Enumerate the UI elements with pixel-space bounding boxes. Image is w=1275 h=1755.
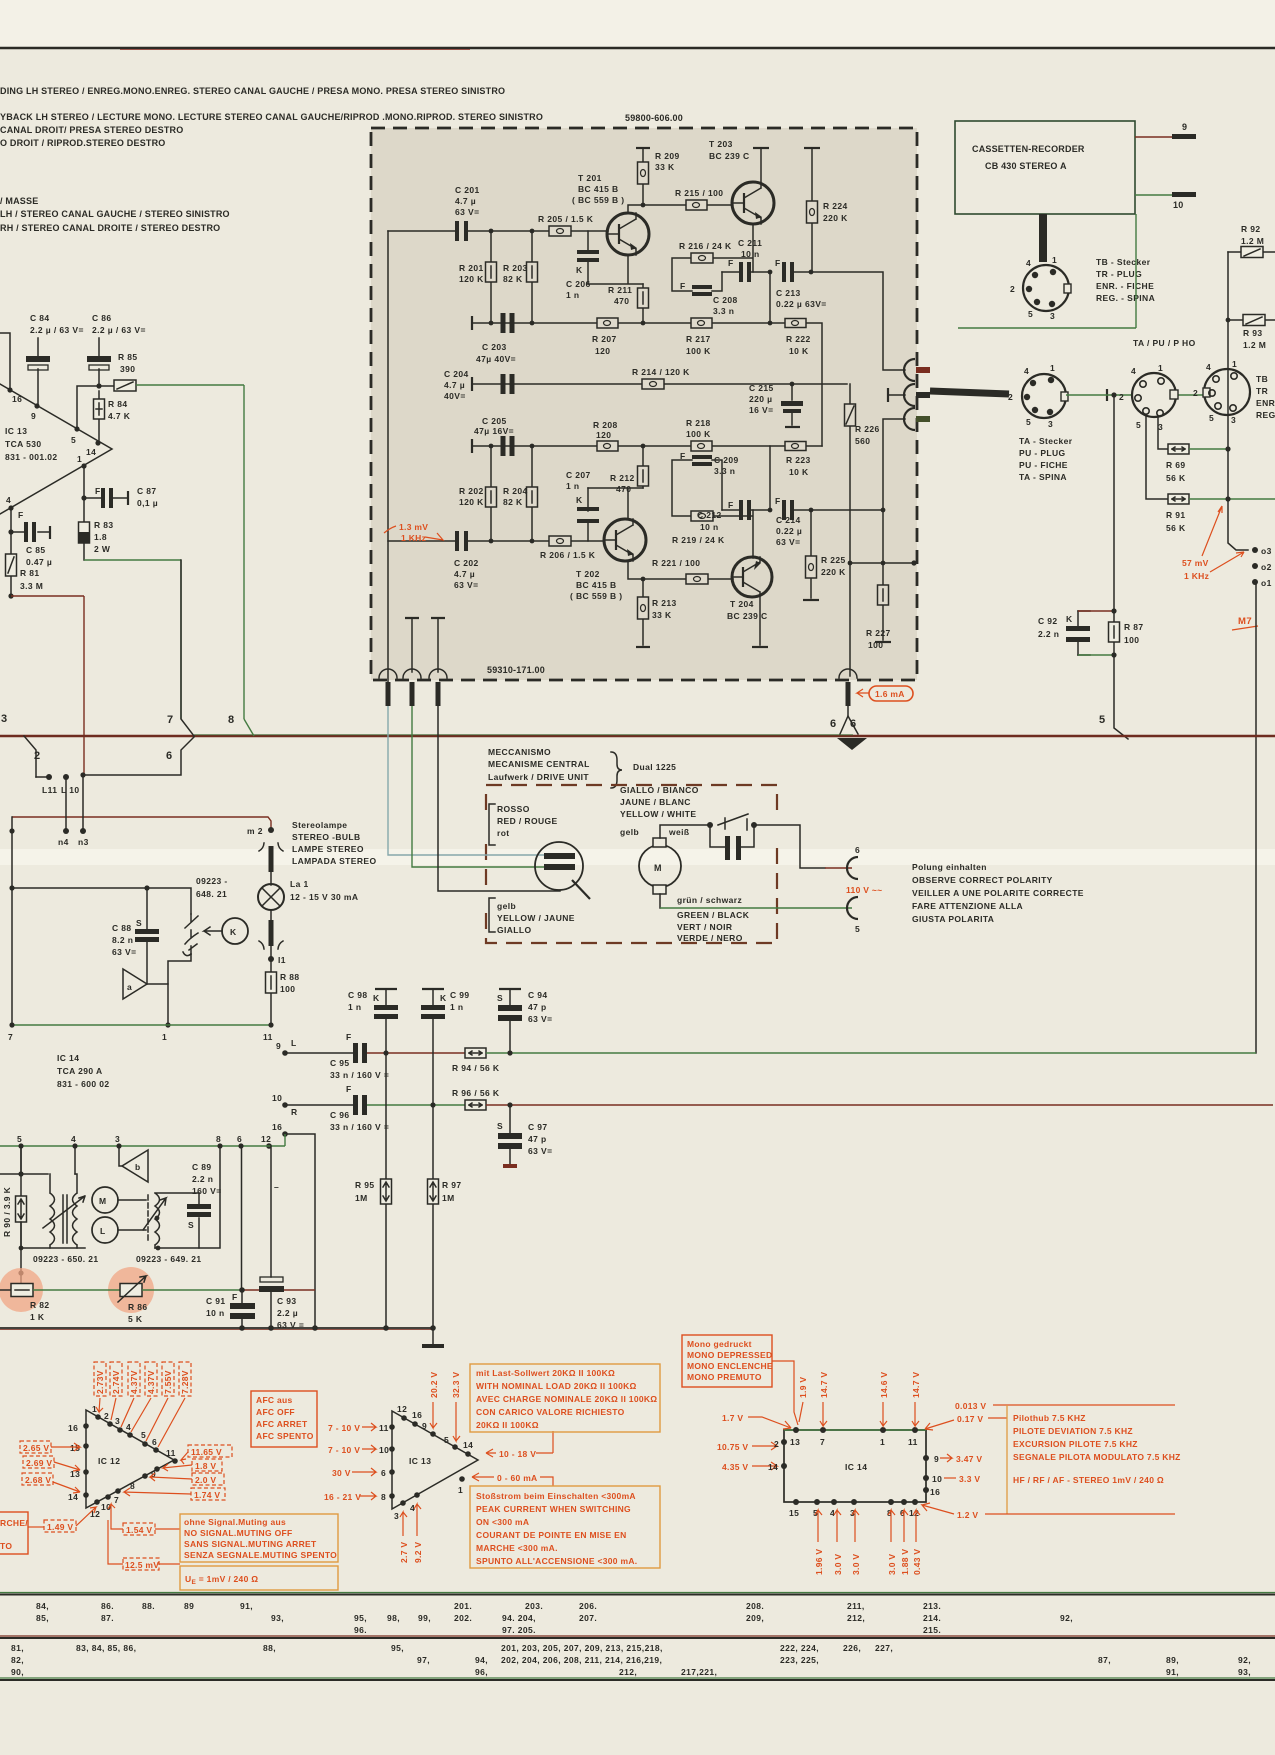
svg-text:99,: 99, xyxy=(418,1613,431,1623)
amp triangle a xyxy=(123,969,147,999)
svg-text:R 216 / 24 K: R 216 / 24 K xyxy=(679,241,732,251)
svg-text:TB: TB xyxy=(1256,374,1268,384)
svg-text:9: 9 xyxy=(934,1454,939,1464)
svg-text:14.6 V: 14.6 V xyxy=(879,1372,889,1398)
wire pin4 drop xyxy=(74,1146,76,1174)
jack 5 xyxy=(847,897,860,934)
svg-text:11: 11 xyxy=(263,1032,273,1042)
svg-text:7 - 10 V: 7 - 10 V xyxy=(328,1423,360,1433)
wire trafo top xyxy=(0,1146,48,1174)
resistor R87 xyxy=(1109,611,1144,655)
svg-text:7 - 10 V: 7 - 10 V xyxy=(328,1445,360,1455)
node R87 top xyxy=(1111,608,1116,613)
svg-text:33 K: 33 K xyxy=(652,610,672,620)
svg-text:11: 11 xyxy=(379,1423,389,1433)
svg-text:2.65 V: 2.65 V xyxy=(23,1443,49,1453)
node C87 xyxy=(81,495,86,500)
DIN plug TA/PU/PHO mid xyxy=(1119,363,1178,432)
UE box xyxy=(180,1566,338,1590)
svg-text:m 2: m 2 xyxy=(247,826,263,836)
svg-text:F: F xyxy=(346,1032,352,1042)
svg-text:12: 12 xyxy=(397,1404,407,1414)
svg-text:R 86: R 86 xyxy=(128,1302,148,1312)
node sh2 xyxy=(881,561,886,566)
svg-text:MONO PREMUTO: MONO PREMUTO xyxy=(687,1372,762,1382)
svg-text:1: 1 xyxy=(1232,359,1237,369)
svg-text:ROSSO: ROSSO xyxy=(497,804,530,814)
svg-text:LH / STEREO CANAL GAUCHE / ST: LH / STEREO CANAL GAUCHE / STEREO SINIST… xyxy=(0,209,230,219)
svg-text:1 n: 1 n xyxy=(566,481,579,491)
IC13 triangle xyxy=(392,1411,478,1509)
node C94 xyxy=(507,1050,512,1055)
bend 6 xyxy=(83,737,194,775)
svg-text:AFC aus: AFC aus xyxy=(256,1395,293,1405)
wire T201 emitter xyxy=(588,255,643,284)
svg-text:220 K: 220 K xyxy=(823,213,848,223)
svg-text:93,: 93, xyxy=(1238,1667,1251,1677)
svg-text:16: 16 xyxy=(412,1410,422,1420)
node output ch2 xyxy=(809,508,814,513)
resistor R69 xyxy=(1166,444,1189,483)
node C88 top xyxy=(144,885,149,890)
resistor R81 xyxy=(6,532,44,596)
svg-text:16: 16 xyxy=(68,1423,78,1433)
svg-text:C 91: C 91 xyxy=(206,1296,226,1306)
capacitor C94 S xyxy=(497,989,552,1053)
svg-text:C 87: C 87 xyxy=(137,486,157,496)
resistor R97 xyxy=(428,1105,462,1328)
capacitor C89 S xyxy=(187,1162,222,1248)
svg-text:C 201: C 201 xyxy=(455,185,480,195)
wire collector row xyxy=(628,205,732,213)
IC13 pins left xyxy=(324,1423,395,1502)
pin P1 xyxy=(379,669,397,706)
svg-text:WITH NOMINAL LOAD 20KΩ II 100: WITH NOMINAL LOAD 20KΩ II 100KΩ xyxy=(476,1381,637,1391)
svg-text:C 211: C 211 xyxy=(738,238,762,248)
svg-text:C 205: C 205 xyxy=(482,416,507,426)
svg-text:5: 5 xyxy=(444,1435,449,1445)
svg-text:–: – xyxy=(274,1182,279,1192)
voltage 0.013V xyxy=(955,1401,1175,1411)
svg-text:MARCHE <300 mA.: MARCHE <300 mA. xyxy=(476,1543,558,1553)
node R87 bot xyxy=(1111,652,1116,657)
AFC box xyxy=(251,1391,317,1447)
svg-text:1 KHz: 1 KHz xyxy=(1184,571,1209,581)
svg-text:C 204: C 204 xyxy=(444,369,469,379)
svg-text:1: 1 xyxy=(162,1032,167,1042)
svg-text:7: 7 xyxy=(167,714,174,726)
svg-text:3.0 V: 3.0 V xyxy=(833,1554,843,1575)
svg-text:5: 5 xyxy=(71,435,76,445)
resistor R92 xyxy=(1228,224,1275,258)
svg-text:R 92: R 92 xyxy=(1241,224,1261,234)
svg-text:1.2 M: 1.2 M xyxy=(1241,236,1264,246)
svg-text:0.013 V: 0.013 V xyxy=(955,1401,986,1411)
svg-text:Mono gedruckt: Mono gedruckt xyxy=(687,1339,752,1349)
svg-text:T 204: T 204 xyxy=(730,599,754,609)
voltage boxes left IC12 xyxy=(20,1441,80,1493)
svg-text:F: F xyxy=(18,510,24,520)
svg-text:4.35 V: 4.35 V xyxy=(722,1462,748,1472)
wire motor top xyxy=(660,825,710,838)
svg-text:2.74V: 2.74V xyxy=(111,1370,121,1394)
svg-text:1: 1 xyxy=(92,1404,97,1414)
brace xyxy=(611,752,622,788)
svg-text:Pilothub 7.5 KHZ: Pilothub 7.5 KHZ xyxy=(1013,1413,1086,1423)
label gelb bracket xyxy=(489,898,575,935)
svg-text:C 203: C 203 xyxy=(482,342,507,352)
DIN plug TA mid xyxy=(1008,363,1068,429)
amp triangle b xyxy=(119,1146,148,1182)
svg-text:R 225: R 225 xyxy=(821,555,846,565)
svg-text:T 203: T 203 xyxy=(709,139,733,149)
wire row 1290 red xyxy=(242,1289,315,1291)
svg-text:R 219 / 24 K: R 219 / 24 K xyxy=(672,535,725,545)
svg-text:8: 8 xyxy=(381,1492,386,1502)
svg-text:12 - 15 V 30 mA: 12 - 15 V 30 mA xyxy=(290,892,358,902)
svg-text:214.: 214. xyxy=(923,1613,941,1623)
mechanism dashed box xyxy=(486,785,777,943)
node I1 xyxy=(268,955,286,965)
wire TA pin5 to R91 xyxy=(1146,415,1168,499)
svg-text:831 - 600 02: 831 - 600 02 xyxy=(57,1079,110,1089)
IC12 pins left xyxy=(68,1423,89,1502)
svg-text:SEGNALE PILOTA MODULATO 7.: SEGNALE PILOTA MODULATO 7.5 KHZ xyxy=(1013,1452,1181,1462)
svg-text:OBSERVE CORRECT POLARITY: OBSERVE CORRECT POLARITY xyxy=(912,875,1053,885)
voltage 1.49V xyxy=(28,1507,96,1532)
svg-text:86.: 86. xyxy=(101,1601,114,1611)
svg-text:GIALLO / BIANCO: GIALLO / BIANCO xyxy=(620,785,699,795)
svg-text:4: 4 xyxy=(1026,258,1031,268)
svg-text:n3: n3 xyxy=(78,837,89,847)
svg-text:b: b xyxy=(135,1162,141,1172)
svg-text:Stereolampe: Stereolampe xyxy=(292,820,347,830)
svg-text:F: F xyxy=(728,500,734,510)
resistor R95 xyxy=(355,1053,392,1328)
node 3 xyxy=(115,1134,122,1149)
svg-text:213.: 213. xyxy=(923,1601,941,1611)
svg-text:208.: 208. xyxy=(746,1601,764,1611)
IC14 pins bottom xyxy=(789,1499,919,1518)
svg-text:R 97: R 97 xyxy=(442,1180,462,1190)
svg-text:TA / PU / P HO: TA / PU / P HO xyxy=(1133,338,1196,348)
lamp La1 xyxy=(258,879,358,910)
svg-text:BC 239 C: BC 239 C xyxy=(709,151,750,161)
svg-text:C 95: C 95 xyxy=(330,1058,350,1068)
resistor R208 xyxy=(593,420,618,451)
cable recorder to TB plug xyxy=(1039,214,1047,262)
voltage 0-60mA xyxy=(472,1473,553,1486)
svg-text:63 V=: 63 V= xyxy=(528,1014,552,1024)
svg-text:C 98: C 98 xyxy=(348,990,368,1000)
svg-text:3: 3 xyxy=(1050,311,1055,321)
svg-text:10 K: 10 K xyxy=(789,467,809,477)
svg-text:F: F xyxy=(680,281,686,291)
voltage 3.47V xyxy=(940,1454,982,1464)
svg-text:C 214: C 214 xyxy=(776,515,801,525)
svg-text:94. 204,: 94. 204, xyxy=(502,1613,536,1623)
svg-text:LAMPE STEREO: LAMPE STEREO xyxy=(292,844,364,854)
svg-text:C 92: C 92 xyxy=(1038,616,1058,626)
svg-text:3.3 V: 3.3 V xyxy=(959,1474,980,1484)
svg-text:FARE ATTENZIONE ALLA: FARE ATTENZIONE ALLA xyxy=(912,901,1023,911)
IC14 rectangle xyxy=(784,1430,926,1502)
svg-text:MECANISME CENTRAL: MECANISME CENTRAL xyxy=(488,759,590,769)
svg-text:227,: 227, xyxy=(875,1643,893,1653)
node sh3 xyxy=(911,560,916,565)
svg-text:SENZA SEGNALE.MUTING SPENTO: SENZA SEGNALE.MUTING SPENTO xyxy=(184,1550,337,1560)
svg-text:1 n: 1 n xyxy=(450,1002,463,1012)
svg-text:223, 225,: 223, 225, xyxy=(780,1655,819,1665)
jack J2 out xyxy=(888,384,930,406)
wire o1 down xyxy=(1255,585,1257,1053)
svg-text:09223 - 649. 21: 09223 - 649. 21 xyxy=(136,1254,202,1264)
node n3 xyxy=(78,828,89,847)
svg-text:2.2 n: 2.2 n xyxy=(1038,629,1059,639)
node bus C91 xyxy=(239,1325,245,1331)
node R69 xyxy=(1225,446,1230,451)
svg-text:C 88: C 88 xyxy=(112,923,132,933)
svg-text:0.22 µ 63V=: 0.22 µ 63V= xyxy=(776,299,827,309)
pin P4 current xyxy=(839,669,857,706)
resistor R226 xyxy=(845,384,880,676)
svg-text:R 222: R 222 xyxy=(786,334,811,344)
svg-text:6: 6 xyxy=(166,750,173,762)
voltage 12.5mV xyxy=(108,1520,180,1570)
svg-text:110 V ~~: 110 V ~~ xyxy=(846,885,882,895)
capacitor C208 F xyxy=(680,272,738,316)
svg-text:95,: 95, xyxy=(354,1613,367,1623)
svg-text:15: 15 xyxy=(789,1508,799,1518)
svg-text:F: F xyxy=(95,486,101,496)
table row 2b xyxy=(11,1655,1251,1665)
svg-text:GIUSTA POLARITA: GIUSTA POLARITA xyxy=(912,914,994,924)
svg-text:gelb: gelb xyxy=(497,901,516,911)
svg-text:C 89: C 89 xyxy=(192,1162,212,1172)
resistor R96 xyxy=(452,1088,500,1110)
wire row 1290 green xyxy=(33,1289,120,1291)
label TB-Stecker xyxy=(1096,257,1155,303)
svg-text:470: 470 xyxy=(616,484,631,494)
svg-text:98,: 98, xyxy=(387,1613,400,1623)
svg-text:SANS SIGNAL.MUTING ARRET: SANS SIGNAL.MUTING ARRET xyxy=(184,1539,317,1549)
svg-text:100 K: 100 K xyxy=(686,429,711,439)
row1 items xyxy=(101,1601,941,1611)
svg-text:6: 6 xyxy=(830,718,837,730)
node bus C93 xyxy=(268,1325,274,1331)
svg-text:09223 -: 09223 - xyxy=(196,876,228,886)
svg-text:10 n: 10 n xyxy=(741,249,760,259)
svg-text:R 215 / 100: R 215 / 100 xyxy=(675,188,723,198)
svg-text:30 V: 30 V xyxy=(332,1468,351,1478)
ground bar R227 xyxy=(875,641,891,643)
node t2b xyxy=(156,1246,161,1251)
svg-text:2: 2 xyxy=(774,1439,779,1449)
svg-text:211,: 211, xyxy=(847,1601,865,1611)
svg-text:226,: 226, xyxy=(843,1643,861,1653)
wire jack6 red tail xyxy=(825,867,852,869)
wire left col xyxy=(11,817,13,1025)
svg-text:16 - 21 V: 16 - 21 V xyxy=(324,1492,361,1502)
svg-text:9: 9 xyxy=(276,1041,281,1051)
pilothub text block xyxy=(1007,1405,1181,1514)
voltage 1.2V xyxy=(922,1503,1175,1520)
svg-text:C 206: C 206 xyxy=(566,279,591,289)
node tb xyxy=(19,1246,24,1251)
svg-text:VEILLER A UNE POLARITE CORRE: VEILLER A UNE POLARITE CORRECTE xyxy=(912,888,1084,898)
svg-text:59310-171.00: 59310-171.00 xyxy=(487,665,545,675)
svg-text:0.22 µ: 0.22 µ xyxy=(776,526,802,536)
node left a xyxy=(9,828,14,833)
label IC14 TCA290A xyxy=(57,1053,110,1089)
top border red tint xyxy=(120,49,470,51)
svg-text:81,: 81, xyxy=(11,1643,24,1653)
svg-text:16 V=: 16 V= xyxy=(749,405,773,415)
voltage 3.3V xyxy=(944,1474,980,1484)
svg-text:M: M xyxy=(99,1196,106,1206)
svg-text:MECCANISMO: MECCANISMO xyxy=(488,747,551,757)
svg-text:201.: 201. xyxy=(454,1601,472,1611)
svg-text:ON <300 mA: ON <300 mA xyxy=(476,1517,529,1527)
svg-text:IC 13: IC 13 xyxy=(5,426,27,436)
node R213 xyxy=(641,577,646,582)
svg-text:1.96 V: 1.96 V xyxy=(814,1549,824,1575)
svg-text:R 214 / 120 K: R 214 / 120 K xyxy=(632,367,690,377)
head connector circle xyxy=(535,842,590,899)
svg-text:F: F xyxy=(775,258,781,268)
IC14 pins right xyxy=(923,1454,942,1497)
svg-text:C 97: C 97 xyxy=(528,1122,548,1132)
svg-text:7.55V: 7.55V xyxy=(163,1370,173,1394)
svg-text:DING LH STEREO / ENREG.MONO.EN: DING LH STEREO / ENREG.MONO.ENREG. STERE… xyxy=(0,86,505,96)
svg-text:40V=: 40V= xyxy=(444,391,466,401)
svg-text:R 221 / 100: R 221 / 100 xyxy=(652,558,700,568)
pointer K circle xyxy=(204,918,248,944)
svg-text:10 n: 10 n xyxy=(206,1308,225,1318)
svg-text:202, 204, 206, 208, 211, 2: 202, 204, 206, 208, 211, 214, 216,219, xyxy=(501,1655,662,1665)
pin 9 L row xyxy=(276,1038,297,1056)
node emitter out xyxy=(768,270,773,275)
table row 2c xyxy=(11,1667,1251,1677)
svg-text:( BC 559 B ): ( BC 559 B ) xyxy=(572,195,625,205)
svg-text:120: 120 xyxy=(595,346,610,356)
svg-text:C 99: C 99 xyxy=(450,990,470,1000)
svg-text:R 209: R 209 xyxy=(655,151,680,161)
svg-text:R 93: R 93 xyxy=(1243,328,1263,338)
wire T204 emitter net xyxy=(672,460,753,558)
svg-text:4: 4 xyxy=(6,495,11,505)
svg-text:F: F xyxy=(728,258,734,268)
wire L row long xyxy=(486,1052,1256,1054)
svg-text:4.7 µ: 4.7 µ xyxy=(455,196,476,206)
node bus 16 xyxy=(312,1325,318,1331)
svg-text:6: 6 xyxy=(855,845,860,855)
svg-text:STEREO -BULB: STEREO -BULB xyxy=(292,832,361,842)
svg-text:88,: 88, xyxy=(263,1643,276,1653)
wire TA T down xyxy=(1113,395,1115,611)
svg-text:82 K: 82 K xyxy=(503,497,523,507)
pin 14 xyxy=(86,440,101,457)
svg-text:F: F xyxy=(680,451,686,461)
node ch2 emitter out xyxy=(768,508,773,513)
node C98 xyxy=(383,1050,388,1055)
wire L10 down xyxy=(65,777,67,831)
svg-text:10 K: 10 K xyxy=(789,346,809,356)
transformer 09223-649.21 xyxy=(136,1193,202,1264)
svg-text:7: 7 xyxy=(114,1495,119,1505)
svg-text:R 202: R 202 xyxy=(459,486,484,496)
resistor R209 xyxy=(638,148,680,205)
transistor T202 xyxy=(570,519,646,601)
resistor R212 xyxy=(610,446,649,494)
svg-text:82,: 82, xyxy=(11,1655,24,1665)
svg-text:82 K: 82 K xyxy=(503,274,523,284)
node output ch1 xyxy=(809,270,814,275)
voltage 10.75V xyxy=(717,1442,777,1452)
voltage 1.7V xyxy=(722,1413,791,1429)
svg-text:207.: 207. xyxy=(579,1613,597,1623)
svg-text:84,: 84, xyxy=(36,1601,49,1611)
ground stub pins mid xyxy=(405,618,445,672)
svg-text:3: 3 xyxy=(1,713,8,725)
svg-text:5 K: 5 K xyxy=(128,1314,143,1324)
voltage 14.7V a xyxy=(819,1372,829,1426)
svg-text:ohne Signal.Muting aus: ohne Signal.Muting aus xyxy=(184,1517,286,1527)
node C91 xyxy=(239,1287,245,1293)
bus green edge xyxy=(194,734,853,736)
svg-text:85,: 85, xyxy=(36,1613,49,1623)
resistor R217 xyxy=(686,318,712,356)
transistor T203 xyxy=(709,139,774,224)
node C92 top xyxy=(1111,392,1116,397)
svg-text:1: 1 xyxy=(1050,363,1055,373)
svg-text:C 84: C 84 xyxy=(30,313,50,323)
svg-text:20.2 V: 20.2 V xyxy=(429,1372,439,1398)
svg-text:63 V=: 63 V= xyxy=(528,1146,552,1156)
svg-text:RCHE/: RCHE/ xyxy=(0,1518,28,1528)
IC12 pins bottom xyxy=(90,1466,160,1519)
label 57mV 1KHz xyxy=(1182,506,1244,581)
svg-text:0.47 µ: 0.47 µ xyxy=(26,557,52,567)
wire ch1 output to jack xyxy=(811,272,905,370)
svg-text:4.7 µ: 4.7 µ xyxy=(444,380,465,390)
svg-text:100: 100 xyxy=(280,984,295,994)
svg-text:TA - SPINA: TA - SPINA xyxy=(1019,472,1067,482)
svg-text:TO: TO xyxy=(0,1541,12,1551)
svg-text:L 10: L 10 xyxy=(61,785,79,795)
wire pin4 to bus xyxy=(840,706,858,734)
svg-text:o2: o2 xyxy=(1261,562,1272,572)
jack J3 out xyxy=(904,408,930,430)
lamp holder bottom xyxy=(259,910,283,959)
svg-text:93,: 93, xyxy=(271,1613,284,1623)
capacitor motor xyxy=(710,825,754,860)
node bend6 xyxy=(80,772,85,777)
pin P2 xyxy=(403,669,421,706)
motor circle M xyxy=(92,1187,146,1213)
bend 7 xyxy=(167,560,194,736)
svg-text:YBACK LH STEREO / LECTURE MONO: YBACK LH STEREO / LECTURE MONO. LECTURE … xyxy=(0,112,543,122)
svg-text:RED / ROUGE: RED / ROUGE xyxy=(497,816,558,826)
svg-text:TCA 530: TCA 530 xyxy=(5,439,42,449)
svg-text:32.3 V: 32.3 V xyxy=(451,1372,461,1398)
svg-text:97,: 97, xyxy=(417,1655,430,1665)
voltage 0.17V xyxy=(925,1414,1007,1430)
svg-text:120 K: 120 K xyxy=(459,497,484,507)
node ch1 b xyxy=(530,229,535,234)
svg-text:BC 415 B: BC 415 B xyxy=(578,184,619,194)
svg-text:97. 205.: 97. 205. xyxy=(502,1625,536,1635)
